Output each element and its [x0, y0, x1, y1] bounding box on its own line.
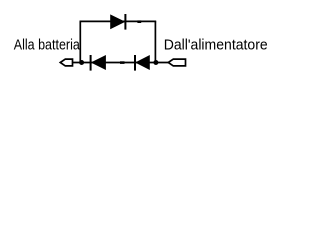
wire overlap dash (bottom wire): [120, 61, 125, 64]
terminal connector (right, from power supply): [168, 59, 185, 66]
diode D2 (bottom left, pointing left): [91, 55, 106, 71]
wire: right vertical branch: [154, 21, 156, 62]
terminal connector (left, to battery): [60, 59, 72, 66]
wire: top horizontal branch: [80, 20, 157, 22]
svg-text:Alla batteria: Alla batteria: [14, 38, 81, 54]
wire: left vertical branch: [79, 21, 81, 62]
diode D3 (bottom right, pointing left): [135, 55, 149, 71]
diode D1 (top, pointing right): [111, 14, 126, 30]
node junction dot (left): [79, 60, 84, 65]
wire overlap dash (top wire): [137, 20, 141, 23]
node junction dot (right): [153, 60, 158, 65]
wire: bottom horizontal net: [72, 62, 169, 64]
svg-text:Dall'alimentatore: Dall'alimentatore: [164, 38, 268, 54]
